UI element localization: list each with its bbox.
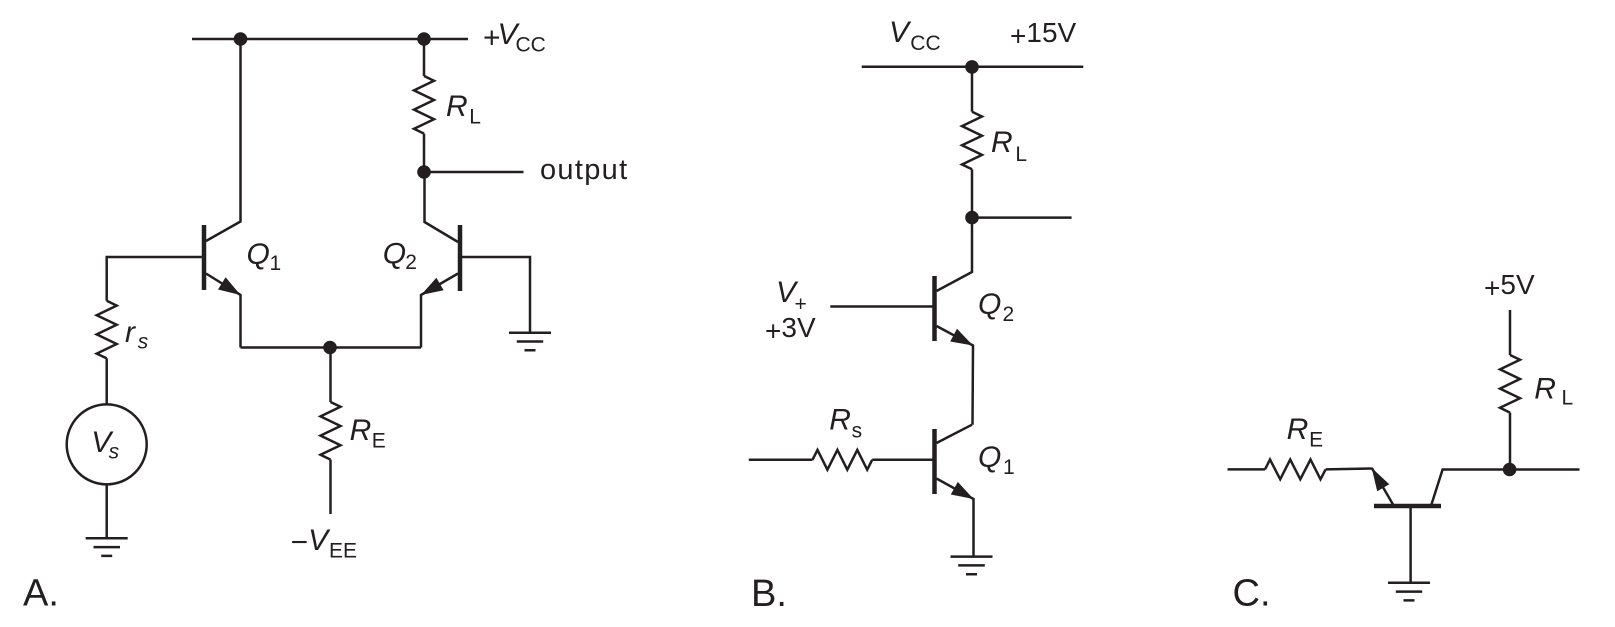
svg-text:+: +	[765, 315, 781, 346]
svg-text:R: R	[350, 414, 372, 447]
svg-text:1: 1	[1003, 456, 1015, 479]
svg-text:L: L	[1015, 143, 1027, 166]
svg-text:s: s	[852, 420, 863, 443]
svg-text:CC: CC	[910, 32, 940, 55]
svg-text:1: 1	[270, 252, 282, 275]
svg-text:+: +	[1010, 20, 1026, 51]
svg-text:s: s	[109, 441, 120, 464]
svg-text:+: +	[1484, 272, 1500, 303]
svg-text:L: L	[1562, 387, 1574, 410]
svg-text:E: E	[1309, 429, 1323, 452]
svg-text:2: 2	[405, 251, 417, 274]
svg-text:L: L	[469, 106, 481, 129]
svg-text:V: V	[889, 16, 912, 49]
svg-text:s: s	[138, 331, 149, 354]
svg-text:Q: Q	[247, 238, 270, 271]
svg-text:E: E	[372, 430, 386, 453]
svg-text:R: R	[991, 126, 1013, 159]
svg-text:V: V	[308, 524, 331, 557]
svg-text:EE: EE	[329, 540, 357, 563]
svg-text:R: R	[1534, 373, 1556, 406]
svg-text:Q: Q	[978, 441, 1001, 474]
svg-text:15V: 15V	[1026, 17, 1076, 48]
svg-text:B.: B.	[751, 573, 787, 615]
svg-text:R: R	[1287, 413, 1309, 446]
svg-text:A.: A.	[23, 573, 59, 615]
svg-text:output: output	[540, 154, 628, 186]
svg-text:5V: 5V	[1500, 269, 1535, 300]
svg-text:3V: 3V	[781, 312, 816, 343]
svg-text:−: −	[291, 526, 309, 559]
svg-text:C.: C.	[1233, 573, 1271, 615]
svg-text:R: R	[446, 90, 468, 123]
svg-text:r: r	[125, 316, 136, 349]
svg-text:R: R	[829, 404, 851, 437]
svg-text:Q: Q	[978, 288, 1001, 321]
svg-text:2: 2	[1003, 303, 1015, 326]
svg-text:CC: CC	[516, 34, 546, 57]
svg-text:Q: Q	[383, 238, 406, 271]
